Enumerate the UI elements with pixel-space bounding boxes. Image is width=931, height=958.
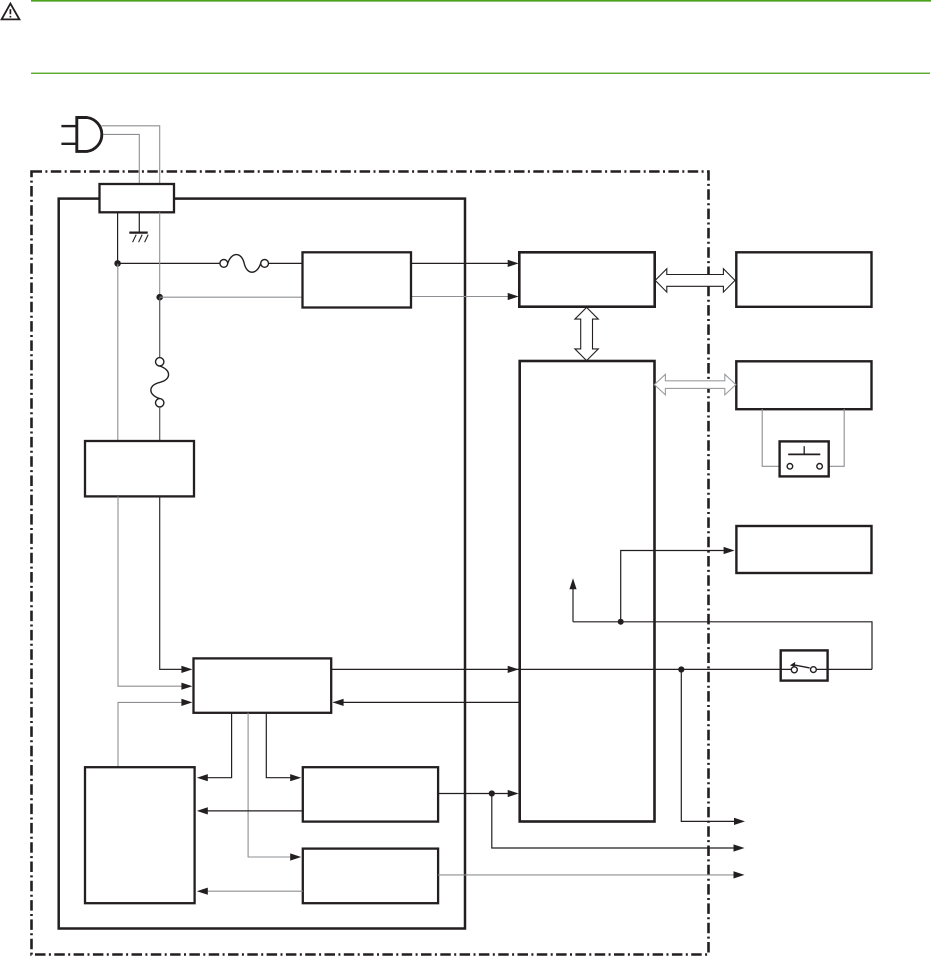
- arrowhead into memory block: [724, 547, 735, 554]
- wire: high-voltage supply to engine power assembly input 3: [118, 702, 182, 767]
- wire: node N to fuser control block: [160, 296, 303, 298]
- arrowhead into DC controller switched line: [508, 666, 519, 673]
- warning triangle icon: [2, 4, 20, 20]
- green separator line: [31, 73, 930, 74]
- ground symbol: [129, 212, 148, 242]
- wire: node L to fuse F1: [118, 262, 220, 264]
- wire: laser scanner to test switch left: [762, 409, 779, 466]
- gray bidirectional arrow DC controller-laser scanner: [654, 374, 735, 395]
- wire: motor block feedback to high-voltage block: [208, 890, 303, 892]
- formatter block: [736, 252, 871, 306]
- motor block: [303, 849, 438, 904]
- wire: LVPS to engine power assembly input 2: [118, 496, 182, 686]
- node N junction dot: [156, 294, 163, 301]
- wire: fuser control to ECU line 2: [411, 296, 509, 298]
- arrowhead output 2: [734, 844, 745, 851]
- arrowhead into ECU line 1: [508, 260, 519, 267]
- wire: fuse F1 to fuser control block: [269, 262, 303, 264]
- wire: engine power assembly to high-voltage block: [208, 713, 232, 778]
- wire: node R to output 2: [492, 794, 734, 849]
- wire: fuser control to ECU line 1: [411, 262, 509, 264]
- wire: engine power assembly to fuser block: [266, 713, 290, 778]
- arrowhead input 1: [181, 666, 192, 673]
- outer dash-dot enclosure (printer boundary): [32, 172, 709, 955]
- high-voltage power supply block: [85, 767, 195, 903]
- node R junction dot: [489, 790, 495, 796]
- wire: engine power assembly to motor block: [248, 713, 290, 857]
- wire: LVPS to engine power assembly input 1: [160, 496, 182, 669]
- engine power assembly block: [194, 658, 332, 712]
- inner solid enclosure (power supply unit boundary): [59, 199, 465, 929]
- arrowhead input 3: [181, 699, 192, 706]
- ECU upper block: [519, 252, 654, 306]
- bidirectional bus arrow ECU-DC controller: [575, 307, 598, 360]
- wire: internal rail up arrow: [572, 589, 574, 622]
- laser scanner block: [736, 361, 871, 409]
- wire: main switched line from engine power assembly: [331, 668, 872, 670]
- arrowhead up internal rail: [569, 578, 576, 589]
- wire: node N down to thermoswitch TP1: [159, 297, 161, 357]
- DC controller main block: [520, 361, 655, 822]
- wire: node Q to output 1: [681, 670, 734, 822]
- wire: fuser block to DC controller: [438, 793, 508, 795]
- wire: inlet to node L: [117, 212, 119, 263]
- LVPS rectifier block: [85, 441, 194, 496]
- arrowhead into DC controller from fuser: [508, 790, 519, 797]
- wire: laser scanner to test switch right: [829, 409, 845, 466]
- wire: fuser block feedback to high-voltage block: [208, 810, 303, 812]
- fuser assembly block: [303, 767, 438, 821]
- node P junction dot: [618, 619, 624, 625]
- test pushbutton switch SW2: [780, 441, 829, 476]
- arrowhead into ECU line 2: [508, 293, 519, 300]
- power inlet block: [100, 184, 175, 212]
- arrowhead feedback 1: [197, 807, 208, 814]
- bidirectional bus arrow ECU-formatter: [655, 269, 735, 292]
- thermoswitch TP1: [151, 358, 169, 407]
- arrowhead into engine power assembly: [333, 699, 344, 706]
- arrowhead into high-voltage block: [197, 774, 208, 781]
- green header bar: [31, 0, 931, 2]
- arrowhead into fuser block: [290, 774, 301, 781]
- wire: node P horizontal run and drop to switch line: [573, 622, 872, 670]
- memory block: [736, 526, 871, 573]
- AC plug P1: [61, 118, 101, 152]
- wire: node P to memory block: [621, 551, 724, 622]
- arrowhead output 3: [734, 871, 745, 878]
- arrowhead feedback 2: [197, 888, 208, 895]
- wire: plug line to inlet: [102, 126, 160, 184]
- fuser control block: [303, 252, 412, 307]
- wire: node L down to LVPS block: [117, 263, 119, 441]
- wire: thermoswitch TP1 to LVPS block: [159, 407, 161, 441]
- wire: motor block to output 3: [438, 874, 733, 876]
- node Q junction dot: [678, 666, 684, 672]
- wire: DC controller feed to engine power assembly: [334, 701, 520, 703]
- wire: plug neutral to inlet: [104, 134, 140, 184]
- node L junction dot: [114, 260, 121, 267]
- arrowhead into motor block: [290, 853, 301, 860]
- power switch SW1: [781, 650, 828, 680]
- fuse F1: [220, 255, 269, 273]
- arrowhead input 2: [181, 683, 192, 690]
- wire: inlet to node N: [159, 212, 161, 297]
- arrowhead output 1: [734, 818, 745, 825]
